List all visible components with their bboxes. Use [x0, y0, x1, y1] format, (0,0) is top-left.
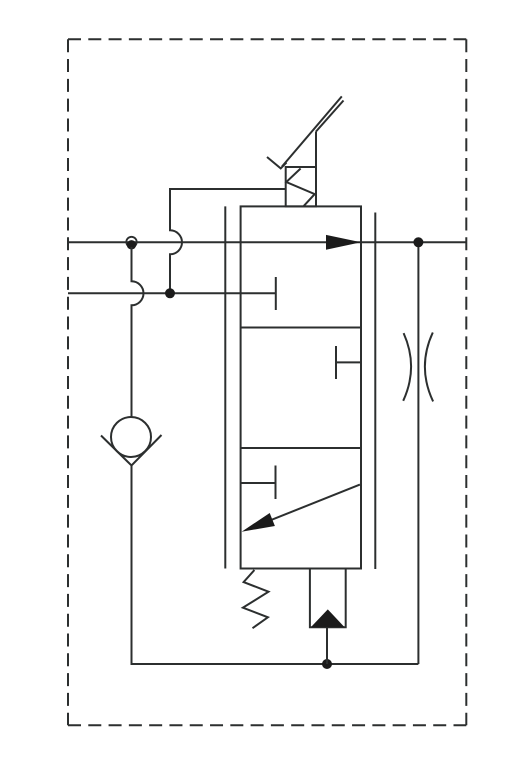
valve position divider 2	[241, 447, 361, 449]
lever fulcrum notch	[267, 157, 287, 168]
wire: right riser	[417, 242, 419, 664]
node: port circle on line P	[126, 237, 136, 247]
diagonal flow line in bottom position	[252, 485, 360, 528]
orifice restrictor right arc	[425, 333, 433, 402]
wire: pilot branch up to check box	[326, 627, 328, 664]
dashed enclosure border	[68, 39, 466, 725]
junction dot pilot	[165, 288, 175, 298]
pilot check box	[310, 569, 346, 628]
diagonal flow arrow head	[242, 513, 275, 532]
flow arrow head in top position	[326, 235, 361, 250]
junction dot below port circle	[127, 240, 136, 249]
lever handle line A	[282, 96, 342, 166]
right proportional bar	[374, 213, 376, 570]
left proportional bar	[224, 206, 226, 568]
lever stem	[315, 132, 317, 168]
lever handle line B	[316, 101, 344, 132]
wire: top pressure line P	[68, 241, 466, 243]
solenoid zigzag	[286, 169, 314, 206]
blocked port T in middle position	[336, 346, 361, 379]
solenoid box	[286, 167, 316, 206]
blocked port T in bottom position	[241, 466, 276, 500]
pilot check triangle	[311, 609, 345, 627]
junction dot top right	[413, 237, 423, 247]
wire: branch down from port circle with hop over second line	[132, 247, 144, 417]
orifice restrictor left arc	[403, 333, 411, 401]
spring	[243, 570, 269, 628]
blocked port bar in top position	[275, 277, 277, 310]
valve envelope	[241, 206, 361, 568]
junction dot bottom	[322, 659, 332, 669]
valve position divider 1	[241, 327, 361, 329]
wire: pilot line from solenoid box with hop over line P	[170, 189, 286, 293]
check valve V1: ball	[111, 417, 151, 457]
wire: second horizontal line to blocked port	[68, 292, 276, 294]
wire: bottom return line	[132, 466, 419, 665]
check valve V1: seat	[101, 435, 162, 466]
